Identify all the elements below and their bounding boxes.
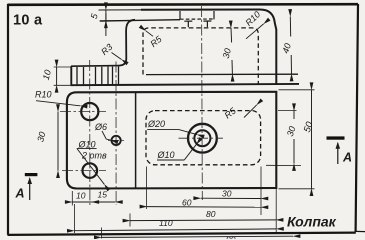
svg-text:A: A xyxy=(15,187,25,201)
svg-text:10 a: 10 a xyxy=(13,13,43,29)
svg-text:10: 10 xyxy=(76,191,86,201)
svg-text:60: 60 xyxy=(182,198,192,208)
svg-text:30: 30 xyxy=(222,189,232,199)
svg-text:90: 90 xyxy=(226,235,236,240)
svg-text:R10: R10 xyxy=(35,90,52,100)
svg-text:110: 110 xyxy=(159,218,173,228)
svg-text:15: 15 xyxy=(98,190,108,200)
svg-text:Колпак: Колпак xyxy=(287,214,337,230)
svg-text:2 отв: 2 отв xyxy=(81,151,107,161)
svg-text:Ø20: Ø20 xyxy=(147,119,165,129)
svg-text:Ø10: Ø10 xyxy=(157,150,175,160)
svg-text:A: A xyxy=(342,151,352,165)
svg-text:Ø10: Ø10 xyxy=(78,139,96,149)
svg-text:80: 80 xyxy=(206,209,216,219)
svg-text:Ø6: Ø6 xyxy=(94,122,107,132)
